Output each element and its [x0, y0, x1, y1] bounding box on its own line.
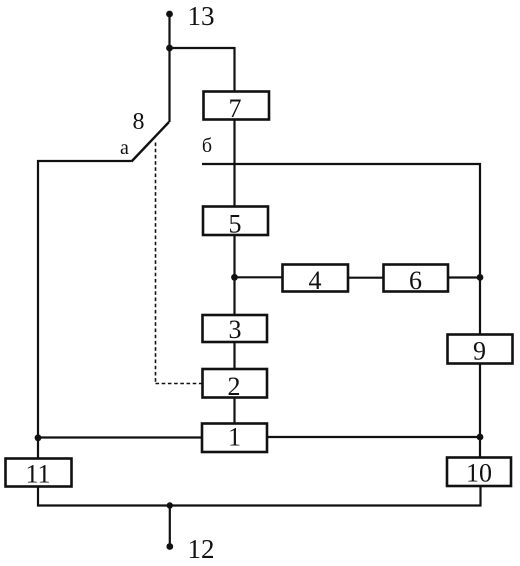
svg-text:11: 11 [25, 459, 50, 488]
svg-text:12: 12 [188, 534, 215, 564]
wire junction to box7 branch horizontal [170, 47, 235, 49]
block 3 [203, 315, 268, 344]
wire box3 to box2 [233, 342, 235, 370]
terminal 12 dot [166, 543, 173, 550]
wire junction down to switch pivot [168, 48, 170, 122]
wire left bus vertical [37, 160, 39, 460]
svg-text:3: 3 [229, 315, 242, 344]
wire junction to box 4 [235, 276, 283, 278]
block 7 [204, 92, 270, 124]
block 10 [447, 458, 511, 488]
wire contact b line to right bus [202, 163, 481, 165]
svg-text:9: 9 [473, 337, 486, 366]
svg-text:13: 13 [188, 1, 215, 31]
wire bottom junction to terminal 12 [169, 506, 171, 547]
wire box11 to bottom bus [37, 487, 39, 507]
wire box1 left to left bus [38, 436, 202, 438]
junction dot bottom [167, 502, 173, 508]
svg-text:10: 10 [466, 459, 492, 488]
svg-text:б: б [202, 135, 212, 157]
wire box7 to box5 [233, 120, 235, 208]
junction dot top [166, 45, 173, 52]
wire box2 to box1 [233, 398, 235, 425]
junction dot left bus [35, 434, 42, 441]
wire right bus vertical [479, 163, 481, 459]
svg-text:7: 7 [229, 94, 242, 123]
block 11 [6, 459, 72, 489]
svg-text:4: 4 [309, 266, 322, 295]
svg-text:8: 8 [133, 109, 145, 135]
svg-text:2: 2 [228, 372, 241, 401]
block 2 [203, 369, 268, 401]
wire box5 to box3 [233, 235, 235, 316]
svg-text:1: 1 [228, 423, 241, 452]
wire branch down to box 7 [233, 47, 235, 92]
svg-text:5: 5 [229, 209, 242, 238]
block 6 [384, 265, 449, 296]
switch 8 blade [132, 122, 170, 162]
wire box6 to right bus [448, 276, 480, 278]
wire contact a to left bus [37, 160, 132, 162]
block 9 [448, 335, 513, 366]
junction dot mid [231, 274, 238, 281]
dashed mechanical link vertical [155, 143, 157, 384]
wire terminal13 to junction [168, 14, 170, 48]
wire box10 to bottom bus [479, 486, 481, 506]
block 4 [283, 265, 349, 296]
dashed mechanical link horizontal to box 2 [156, 383, 203, 385]
wire bottom bus horizontal [37, 504, 482, 506]
block 5 [203, 207, 268, 239]
junction dot right bus lower [477, 434, 484, 441]
junction dot right bus [477, 274, 484, 281]
terminal 13 dot [166, 11, 173, 18]
block 1 [202, 423, 267, 452]
wire box4 to box6 [348, 277, 384, 279]
svg-text:а: а [120, 137, 129, 159]
wire box1 right to right bus [267, 436, 480, 438]
svg-text:6: 6 [409, 266, 422, 295]
